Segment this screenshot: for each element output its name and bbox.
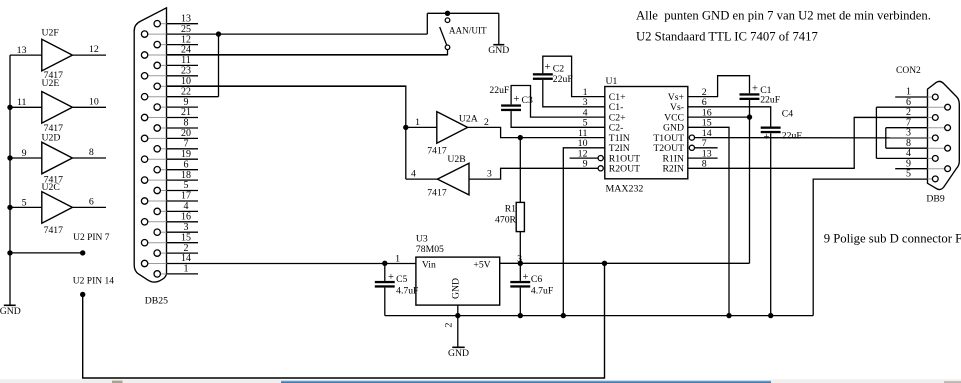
node U2 PIN 7 endpoint [80,250,85,255]
svg-text:23: 23 [181,66,191,77]
svg-text:9: 9 [22,148,27,159]
svg-text:2: 2 [484,117,489,128]
svg-text:11: 11 [181,55,191,66]
svg-text:2: 2 [443,322,454,327]
U1 pin 14 T1OUT bubble [689,135,694,140]
svg-text:U2F: U2F [42,28,60,39]
svg-text:U3: U3 [416,234,428,245]
wire output pin 8 of U2D [72,157,106,159]
svg-text:C5: C5 [396,274,407,285]
svg-text:5: 5 [184,180,189,191]
DB25 pin 22 [148,96,167,98]
node junction T1IN / R1 [518,135,523,140]
svg-text:9 Polige sub D connector Femal: 9 Polige sub D connector Female [824,231,961,245]
svg-text:3: 3 [487,169,492,180]
node junction bus / pin7 wire [7,250,12,255]
svg-text:22uF: 22uF [760,95,781,106]
node junction +5V / U2 pin14 line [602,261,607,266]
svg-text:R1: R1 [505,203,516,214]
svg-text:MAX232: MAX232 [606,184,644,195]
node junction T2IN line / rail [561,313,566,318]
svg-text:6: 6 [89,197,94,208]
op-amp U1 MAX232 box [605,87,688,179]
wire Vs- to C4 [688,107,771,127]
DB9 pin 3 [928,137,933,139]
svg-text:7417: 7417 [44,225,64,236]
wire C2- to pin3 [543,80,605,107]
node junction U2E input [7,105,12,110]
wire output 4 of U2B [406,178,438,180]
wire tie pin25 to pin22 [218,34,220,97]
node junction U2D input [7,155,12,160]
wire C4 to ground rail [770,133,772,315]
svg-text:1: 1 [184,264,189,275]
DB9 pin 1 [928,96,933,98]
wire switch top node [427,12,499,14]
ground GND left bus [4,304,16,306]
svg-text:22uF: 22uF [553,74,574,85]
DB9 pin 7 [928,127,945,129]
DB25 pin 13 [160,23,166,25]
svg-text:8: 8 [89,147,94,158]
DB25 pin 4 [160,210,166,212]
wire switch left leg to pin25 row [426,13,428,34]
svg-text:22uF: 22uF [782,131,803,142]
svg-text:22: 22 [181,86,191,97]
connector CON2 DB9 outline [928,81,960,189]
svg-text:Vin: Vin [422,259,436,270]
svg-text:18: 18 [181,170,191,181]
switch S1 AAN/UIT [445,18,450,23]
U1 pin 9 R2OUT bubble [598,166,603,171]
wire C6 bottom to ground rail [519,288,521,316]
voltage regulator U3 78M05 [416,257,500,305]
node junction VCC / C1 [747,114,752,119]
svg-text:U2 PIN 7: U2 PIN 7 [73,233,110,243]
svg-text:2: 2 [184,243,189,254]
ground rail [385,315,813,317]
svg-text:4: 4 [184,201,189,212]
wire output pin 12 of U2F [72,54,106,56]
DB25 pin 12 [160,44,166,46]
svg-text:10: 10 [89,96,99,107]
wire output pin 10 of U2E [72,106,106,108]
svg-text:+: + [388,272,394,283]
svg-text:1: 1 [395,254,400,265]
svg-text:+: + [514,94,520,105]
node junction C6 / rail [518,313,523,318]
capacitor C1 22uF [740,93,760,95]
ground GND below U3 [452,346,464,348]
svg-text:5: 5 [22,197,27,208]
node junction R1 / +5V rail [518,261,523,266]
svg-text:C4: C4 [782,108,793,119]
svg-text:U2A: U2A [459,114,478,125]
svg-text:R2OUT: R2OUT [609,164,640,175]
svg-text:12: 12 [89,44,99,55]
wire switch GND leg [498,13,500,44]
svg-text:+: + [752,84,758,95]
svg-text:R2IN: R2IN [662,164,684,175]
DB25 pin 8 [160,127,166,129]
svg-text:+5V: +5V [473,259,490,270]
svg-text:7: 7 [184,139,189,150]
wire C2+ loop to pin1 [543,56,605,96]
DB25 pin 10 [160,85,166,87]
svg-text:GND: GND [448,348,469,359]
svg-text:22uF: 22uF [489,85,510,96]
wire VCC pin16 [688,116,750,118]
node junction DB25 pin25 wire [216,31,221,36]
svg-text:U2E: U2E [42,78,60,89]
svg-text:11: 11 [17,97,27,108]
DB25 pin 25 [148,33,167,35]
DB25 pin 2 [160,252,166,254]
wire T2IN to ground rail [563,148,605,316]
DB25 pin 24 [148,54,167,56]
bottom window strip [0,379,961,383]
svg-text:19: 19 [181,149,191,160]
DB9 pin 9 [928,168,945,170]
DB25 pin 15 [148,242,167,244]
svg-text:GND: GND [0,306,21,317]
wire input 1 of U2A [406,126,437,128]
wire +5V rail [500,262,750,264]
svg-text:CON2: CON2 [896,66,921,76]
DB9 pin 6 [928,106,945,108]
wire left input bus [9,55,11,305]
capacitor C4 22uF [761,127,781,129]
wire R1 to +5V rail [519,232,521,281]
capacitor C2 22uF [533,73,553,75]
DB25 pin 14 [148,263,167,265]
wire C3- to pin5 [511,111,605,127]
DB25 pin 19 [148,158,167,160]
wire GND pin15 to ground rail [688,127,729,315]
svg-text:470R: 470R [495,215,517,226]
wire to U2 pin 7 [10,252,83,254]
wire ground rail to DB9 pin5 [813,179,927,316]
DB25 pin 9 [160,106,166,108]
wire output 2 of U2A to T1IN [468,127,605,137]
capacitor C6 4.7uF [510,281,530,283]
U1 pin 7 T2OUT bubble [689,145,694,150]
svg-text:21: 21 [181,107,191,118]
wire input 3 of U2B from R2OUT [469,168,598,179]
svg-text:+: + [523,272,529,283]
node junction C4 / rail [768,313,773,318]
wire input pin 9 to U2D [10,157,42,159]
wire C3+ loop to pin4 [511,86,605,118]
svg-text:Alle punten GND en pin 7 van: Alle punten GND en pin 7 van U2 met de m… [636,9,931,23]
wire U2 pin 14 to +5V (down, along bottom, up) [83,263,605,378]
wire T1IN node to R1 [519,138,521,203]
svg-text:8: 8 [184,118,189,129]
wire R2IN to DB9 pin2 [688,117,928,168]
svg-text:16: 16 [181,212,191,223]
svg-text:25: 25 [181,24,191,35]
svg-text:C3: C3 [522,95,533,106]
svg-text:13: 13 [17,45,27,56]
wire tie DB9 pin7 to pin8 [885,128,887,149]
svg-text:20: 20 [181,128,191,139]
DB25 pin 21 [148,117,167,119]
svg-text:9: 9 [184,97,189,108]
svg-text:4.7uF: 4.7uF [531,286,554,297]
svg-text:7417: 7417 [427,188,447,199]
U1 pin 12 R1OUT bubble [598,156,603,161]
wire C1- to VCC and +5V [749,100,751,263]
DB25 pin 17 [148,200,167,202]
wire C5 top [384,263,386,281]
svg-text:7417: 7417 [427,145,447,156]
wire U3 pin 2 down [457,305,459,347]
buffer gate U2E (7417) [42,92,73,124]
svg-text:U2D: U2D [42,133,61,144]
DB25 pin 11 [160,64,166,66]
svg-text:U2C: U2C [42,182,60,193]
svg-text:AAN/UIT: AAN/UIT [449,26,487,36]
DB9 pin 2 [928,117,933,119]
capacitor C5 4.7uF [375,281,395,283]
svg-text:78M05: 78M05 [416,244,444,255]
DB25 pin 20 [148,137,167,139]
DB9 pin 5 [928,178,933,180]
wire input pin 11 to U2E [10,106,42,108]
wire T2OUT stub [695,147,718,149]
wire switch bottom to pin24 row [167,50,448,55]
node junction U3 pin2 / rail [455,313,460,318]
svg-text:GND: GND [451,278,462,299]
resistor R1 470R [516,202,524,231]
svg-text:5: 5 [906,169,911,180]
buffer gate U2C (7417) [42,192,73,224]
svg-text:3: 3 [184,222,189,233]
wire C5 bottom to ground rail [384,288,386,316]
wire DB25 pin10 to U2A input [167,86,406,179]
wire input pin 13 to U2F [10,54,42,56]
DB25 pin 16 [148,221,167,223]
svg-text:U2B: U2B [447,154,465,165]
svg-text:DB9: DB9 [926,194,944,205]
svg-text:17: 17 [181,191,191,202]
capacitor C3 22uF [501,104,521,106]
svg-text:C2: C2 [553,63,564,74]
wire R1OUT stub [570,157,599,159]
wire T1OUT to DB9 pin3 [695,137,928,139]
DB25 pin 5 [160,190,166,192]
ground GND at switch [493,44,504,46]
svg-text:U2 PIN 14: U2 PIN 14 [73,276,114,286]
DB25 pin 7 [160,148,166,150]
DB25 pin 18 [148,179,167,181]
node junction switch top [445,11,450,16]
svg-text:4.7uF: 4.7uF [396,286,419,297]
buffer gate U2D (7417) [42,142,73,174]
buffer gate U2F (7417) [42,39,73,71]
svg-text:C6: C6 [531,274,542,285]
svg-text:9: 9 [583,159,588,170]
wire output pin 6 of U2C [72,206,106,208]
DB9 pin 4 [928,157,933,159]
svg-text:+: + [545,62,551,73]
svg-text:14: 14 [181,253,191,264]
svg-text:U2 Standaard TTL IC 7407 of 74: U2 Standaard TTL IC 7407 of 7417 [636,30,818,44]
svg-text:6: 6 [184,159,189,170]
node junction U2A input [403,125,408,130]
svg-text:4: 4 [411,169,416,180]
DB25 pin 3 [160,231,166,233]
buffer gate U2B (7417) [437,163,469,195]
connector CON1 DB25 outline [134,8,166,282]
DB25 pin 23 [148,75,167,77]
DB9 pin 8 [928,147,945,149]
svg-text:13: 13 [181,13,191,24]
svg-text:1: 1 [415,117,420,128]
node U2 PIN 14 endpoint [80,292,85,297]
svg-text:DB25: DB25 [145,295,168,306]
node junction C5 / Vin [382,261,387,266]
wire tie DB9 pin6 to pin4 [875,107,877,158]
svg-text:U1: U1 [606,76,618,87]
svg-text:15: 15 [181,232,191,243]
node junction GND15 / rail [726,313,731,318]
wire input pin 5 to U2C [10,206,42,208]
buffer gate U2A (7417) [437,112,468,144]
svg-text:12: 12 [181,34,191,45]
node junction U2C input [7,205,12,210]
wire Vs+ to C1 [688,76,750,97]
DB25 pin 6 [160,169,166,171]
DB25 pin 1 [160,273,166,275]
svg-text:GND: GND [488,45,509,56]
wire R1IN stub [688,157,718,159]
